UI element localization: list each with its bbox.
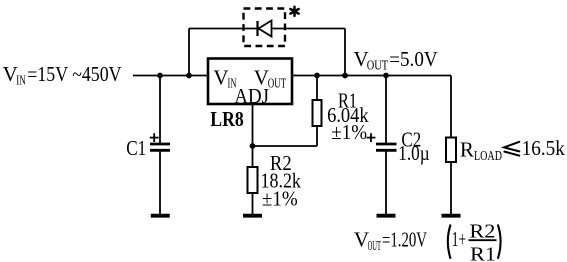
wire C1 top lead: [159, 76, 161, 144]
wire C2 bottom lead: [385, 151, 387, 215]
ground symbol R2: [243, 214, 262, 218]
diode D1 asterisk mark: [290, 7, 298, 16]
svg-text:±1%: ±1%: [331, 120, 367, 144]
wire Rload bottom lead: [450, 162, 452, 215]
node junction dot ADJ-R2: [250, 143, 256, 149]
svg-text:=5.0V: =5.0V: [389, 47, 437, 71]
svg-text:16.5k: 16.5k: [522, 136, 566, 160]
svg-text:1+: 1+: [452, 227, 466, 251]
formula open paren: [448, 225, 451, 259]
ground symbol RLOAD: [442, 214, 461, 218]
ground symbol C2: [377, 214, 396, 218]
capacitor C2 bottom plate: [376, 149, 397, 152]
formula close paren: [498, 225, 501, 259]
svg-text:=15V ~450V: =15V ~450V: [27, 62, 121, 86]
resistor RLOAD body: [446, 138, 456, 163]
node junction dot Vout-R1: [314, 73, 320, 79]
wire R2 bottom lead: [252, 193, 254, 215]
capacitor C1 bottom plate: [150, 149, 170, 152]
formula fraction bar: [469, 239, 497, 241]
svg-text:=1.20V: =1.20V: [382, 228, 427, 252]
wire right drop from top: [344, 29, 346, 76]
node junction dot Vout-C2: [383, 73, 389, 79]
svg-text:LOAD: LOAD: [474, 149, 502, 164]
node junction dot input-C1: [157, 73, 163, 79]
wire R1 top lead: [316, 76, 318, 101]
wire input horizontal: [133, 75, 207, 77]
resistor R1 body: [313, 100, 322, 126]
wire R1 bottom lead: [316, 126, 318, 146]
svg-text:1.0µ: 1.0µ: [398, 141, 429, 165]
wire ADJ pin: [252, 105, 254, 167]
diode D1 dashed box: [244, 9, 286, 47]
diode D1 cathode bar: [256, 21, 258, 36]
svg-text:OUT: OUT: [367, 59, 389, 74]
svg-text:IN: IN: [16, 74, 26, 89]
svg-text:OUT: OUT: [368, 239, 382, 254]
node junction dot Vout-topwire: [342, 73, 348, 79]
capacitor C1 plus sign: [150, 133, 159, 142]
svg-text:R1: R1: [470, 244, 496, 262]
svg-text:V: V: [213, 65, 228, 89]
diode D1 triangle: [259, 21, 272, 37]
svg-text:LR8: LR8: [210, 107, 244, 131]
wire output horizontal: [293, 75, 451, 77]
wire C2 top lead: [385, 76, 387, 144]
wire top horizontal through diode: [189, 28, 345, 30]
capacitor C1 top plate: [150, 143, 170, 146]
capacitor C2 plus sign: [367, 133, 376, 142]
svg-text:OUT: OUT: [268, 77, 287, 92]
resistor RLOAD less-equal symbol: [504, 142, 519, 156]
capacitor C2 top plate: [376, 143, 397, 146]
regulator U1 LR8 box: [208, 59, 292, 105]
node junction dot input-riser: [186, 73, 192, 79]
svg-text:±1%: ±1%: [262, 187, 298, 211]
svg-text:ADJ: ADJ: [234, 84, 269, 108]
svg-text:R2: R2: [469, 221, 495, 243]
wire Rload drop: [450, 76, 452, 139]
svg-text:C1: C1: [126, 136, 146, 160]
wire left riser to top: [188, 29, 190, 76]
svg-text:R: R: [460, 138, 474, 162]
wire ADJ to R1: [253, 145, 318, 147]
resistor R2 body: [248, 167, 258, 193]
ground symbol C1: [151, 214, 170, 218]
wire C1 bottom lead: [159, 151, 161, 215]
